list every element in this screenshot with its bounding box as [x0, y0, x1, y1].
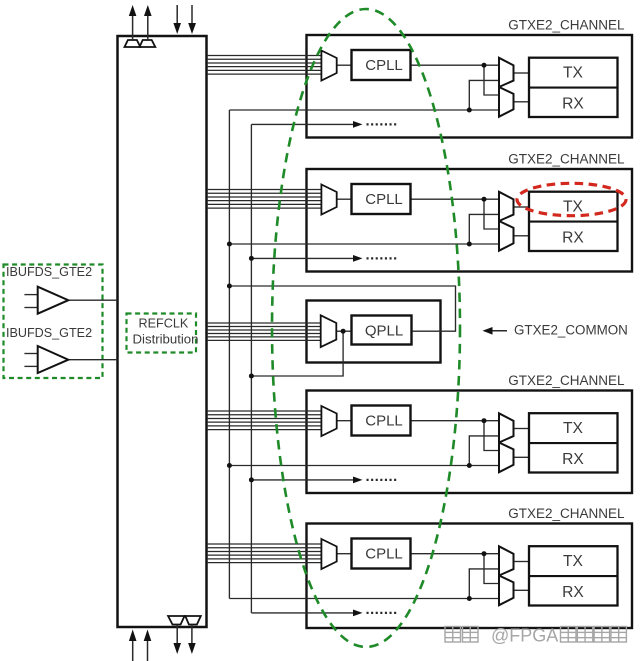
buffer U1 IBUFDS_GTE2: [38, 287, 69, 314]
wire RX mux out ch3: [514, 456, 530, 458]
wire TX mux out ch3: [514, 428, 530, 430]
label GTXE2_COMMON arrow: [483, 327, 508, 335]
TX RX block ch4: [529, 546, 618, 605]
buffer U2 IBUFDS_GTE2: [38, 346, 69, 373]
junction CPLL branch ch3: [482, 418, 487, 423]
junction CPLL branch ch4: [482, 551, 487, 556]
junction QPLL clock branch ch2: [467, 242, 472, 247]
wire U1 input n: [24, 307, 37, 309]
wire RX mux out ch4: [514, 589, 530, 591]
junction trunk QPLLCLK ch2: [227, 242, 232, 247]
svg-text:CPLL: CPLL: [365, 57, 403, 74]
wire TX mux out ch1: [514, 72, 530, 74]
svg-text:RX: RX: [562, 95, 584, 112]
divider TX RX ch3: [529, 442, 618, 444]
svg-text:RX: RX: [562, 229, 584, 246]
mux M3c (RX clock): [499, 443, 514, 473]
CPLL block ch3: [352, 406, 411, 436]
CPLL block ch2: [352, 184, 411, 214]
IBUFDS dashed enclosure: [4, 265, 103, 379]
wire south clock arrow ch2: [251, 255, 397, 262]
wire U2 output: [68, 359, 117, 361]
wire QPLL output feedback: [229, 286, 455, 331]
mux M4a (refclk select): [321, 539, 336, 569]
svg-text:@FPGA: @FPGA: [491, 626, 558, 646]
svg-text:Distribution: Distribution: [133, 331, 199, 346]
mux M3b (TX clock): [499, 413, 514, 442]
wire U2 input p: [24, 353, 37, 355]
output driver T4 (bottom): [185, 616, 201, 625]
wire QPLL clock line ch1: [229, 109, 500, 111]
junction trunk SOUTHCLK ch3: [249, 477, 254, 482]
junction trunk SOUTHCLK ch2: [249, 256, 254, 261]
svg-text:TX: TX: [563, 198, 584, 215]
mux M1a (refclk select): [321, 51, 336, 81]
svg-text:RX: RX: [562, 584, 584, 601]
wire CPLL output ch1: [411, 64, 501, 66]
junction trunk QPLLCLK ch3: [227, 463, 232, 468]
junction CPLL branch ch2: [482, 197, 487, 202]
svg-text:GTXE2_CHANNEL: GTXE2_CHANNEL: [508, 17, 625, 32]
wire QPLL clock to TX mux ch1: [469, 80, 500, 110]
clock distribution block: [118, 36, 207, 627]
down arrow A5 (bottom): [173, 625, 181, 655]
wire TX mux out ch2: [514, 206, 530, 208]
svg-text:REFCLK: REFCLK: [139, 317, 189, 331]
output driver T2 (top): [140, 40, 156, 47]
mux M2a (refclk select): [321, 185, 336, 215]
wire CPLL to RX mux ch1: [484, 65, 500, 95]
wire U2 input n: [24, 365, 37, 367]
svg-text:GTXE2_CHANNEL: GTXE2_CHANNEL: [508, 506, 625, 521]
junction CPLL branch ch1: [482, 63, 487, 68]
svg-text:QPLL: QPLL: [365, 323, 403, 340]
mux M3a (refclk select): [321, 406, 336, 436]
wire mux to CPLL ch1: [337, 64, 352, 66]
wire CPLL output ch3: [411, 420, 501, 422]
svg-text:TX: TX: [563, 64, 584, 81]
output driver T1 (top): [125, 40, 141, 47]
wire CPLL to RX mux ch2: [484, 199, 500, 229]
junction QPLL clock branch ch4: [467, 596, 472, 601]
mux M1b (TX clock): [499, 58, 514, 87]
mux M4b (TX clock): [499, 546, 514, 575]
wire QPLL clock to TX mux ch2: [469, 214, 500, 244]
svg-text:GTXE2_CHANNEL: GTXE2_CHANNEL: [508, 373, 625, 388]
vertical trunk net SOUTHCLK: [250, 124, 252, 613]
wire QPLL clock to TX mux ch4: [469, 569, 500, 599]
wire mux to CPLL ch2: [337, 198, 352, 200]
TX RX block ch1: [529, 58, 618, 117]
junction QPLL clock branch ch3: [467, 463, 472, 468]
svg-text:TX: TX: [563, 553, 584, 570]
mux M2b (TX clock): [499, 192, 514, 221]
svg-text:IBUFDS_GTE2: IBUFDS_GTE2: [6, 326, 92, 340]
TX RX block ch3: [529, 413, 618, 472]
wire mux M5 to QPLL: [336, 330, 351, 332]
wire refclk bundle ch4: [207, 544, 323, 563]
output driver T3 (bottom): [168, 616, 184, 625]
CPLL block ch4: [352, 539, 411, 569]
wire south clock arrow ch1: [251, 121, 397, 128]
svg-text:CPLL: CPLL: [365, 546, 403, 563]
GTXE2_CHANNEL block ch3: [307, 391, 633, 494]
vertical trunk net QPLLCLK: [228, 110, 230, 599]
svg-text:IBUFDS_GTE2: IBUFDS_GTE2: [6, 265, 92, 279]
wire QPLL clock line ch2: [229, 243, 500, 245]
GTXE2_CHANNEL block ch4: [307, 524, 633, 629]
up arrow A8 (input bottom): [144, 630, 152, 661]
wire CPLL to RX mux ch3: [484, 421, 500, 451]
wire CPLL output ch4: [411, 553, 501, 555]
svg-text:TX: TX: [563, 420, 584, 437]
wire QPLL clock to TX mux ch3: [469, 436, 500, 466]
up arrow A2: [144, 5, 152, 40]
wire south clock arrow ch4: [251, 610, 397, 617]
wire refclk bundle to common: [207, 323, 322, 340]
down arrow A4 (input top): [188, 5, 196, 34]
wire refclk bundle ch2: [207, 190, 323, 209]
svg-text:CPLL: CPLL: [365, 191, 403, 208]
up arrow A1: [129, 5, 137, 40]
TX RX block ch2: [529, 192, 618, 251]
wire CPLL to RX mux ch4: [484, 554, 500, 584]
wire TX mux out ch4: [514, 561, 530, 563]
mux M1c (RX clock): [499, 87, 514, 117]
mux M5 (common): [321, 315, 337, 347]
green highlight ellipse (CPLL column): [272, 9, 460, 647]
divider TX RX ch2: [529, 221, 618, 223]
mux M4c (RX clock): [499, 576, 514, 606]
wire QPLL clock line ch4: [229, 598, 500, 600]
wire QPLL clock line ch3: [229, 465, 500, 467]
junction QPLL clock branch ch1: [467, 108, 472, 113]
wire U1 output: [68, 299, 117, 301]
wire RX mux out ch1: [514, 101, 530, 103]
wire south clock arrow ch3: [251, 477, 397, 484]
wire refclk bundle ch3: [207, 411, 323, 430]
wire U1 input p: [24, 294, 37, 296]
watermark 知乎 @FPGA技术实战: [445, 626, 626, 646]
divider TX RX ch4: [529, 575, 618, 577]
svg-text:RX: RX: [562, 451, 584, 468]
junction QPLL input node: [341, 329, 346, 334]
mux M2c (RX clock): [499, 221, 514, 251]
wire refclk bundle ch1: [207, 56, 323, 75]
svg-text:GTXE2_CHANNEL: GTXE2_CHANNEL: [508, 151, 625, 166]
wire mux to CPLL ch3: [337, 420, 352, 422]
wire CPLL output ch2: [411, 198, 501, 200]
up arrow A7 (input bottom): [129, 630, 137, 661]
REFCLK distribution dashed box: [127, 314, 197, 353]
junction trunk QPLLCLK source: [227, 284, 232, 289]
svg-text:CPLL: CPLL: [365, 413, 403, 430]
QPLL block: [352, 316, 412, 345]
down arrow A6 (bottom): [188, 625, 196, 655]
svg-text:GTXE2_COMMON: GTXE2_COMMON: [514, 323, 628, 338]
CPLL block ch1: [352, 50, 411, 80]
GTXE2_CHANNEL block ch2: [307, 169, 633, 272]
divider TX RX ch1: [529, 87, 618, 89]
junction trunk SOUTHCLK source: [249, 374, 254, 379]
wire common clock down: [251, 331, 343, 376]
GTXE2_COMMON block: [307, 301, 441, 363]
wire RX mux out ch2: [514, 235, 530, 237]
red highlight ellipse (TX ch2): [517, 183, 626, 215]
GTXE2_CHANNEL block ch1: [307, 35, 633, 138]
down arrow A3 (input top): [173, 5, 181, 34]
wire mux to CPLL ch4: [337, 553, 352, 555]
